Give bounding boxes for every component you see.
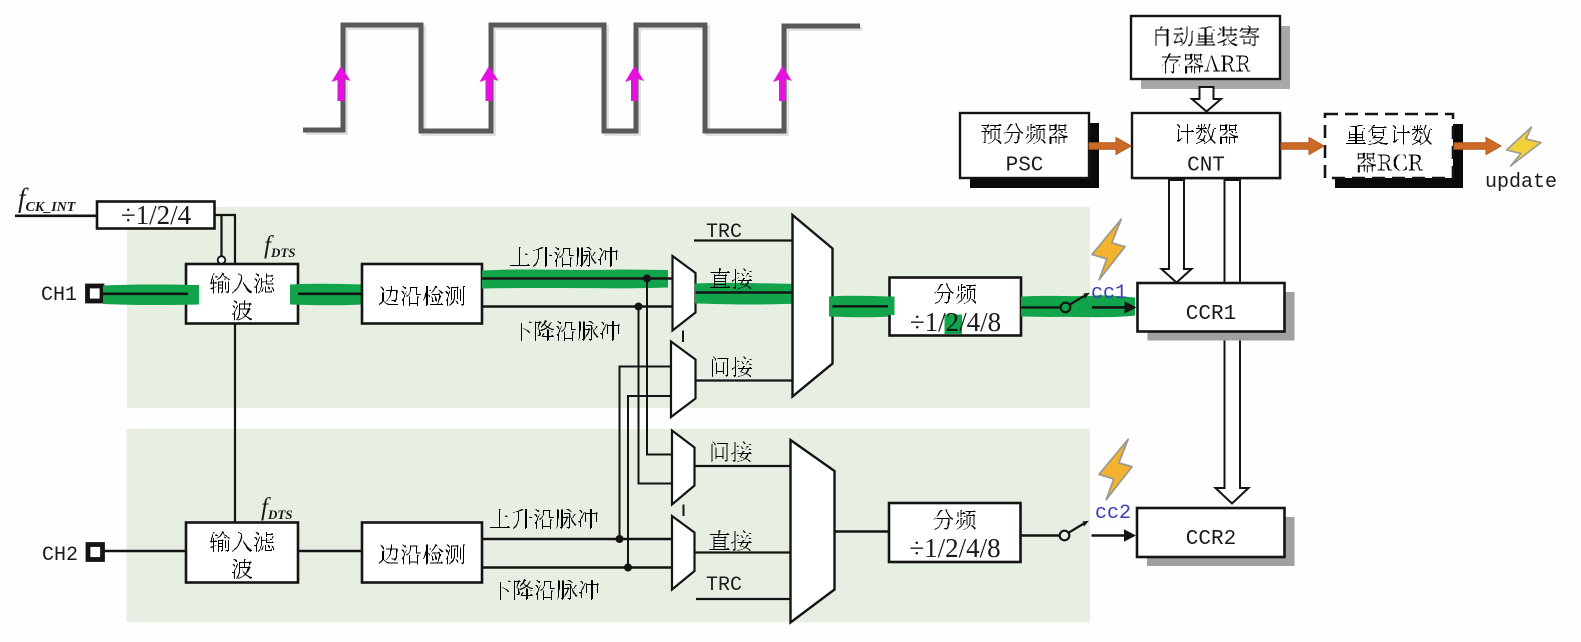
capture divider 1 box [890,278,1022,338]
input filter 2 box [186,523,298,583]
counter CNT box [1132,113,1282,180]
svg-text:CH1: CH1 [41,284,77,307]
orange arrow RCR to update event [1454,138,1501,155]
green highlight on /2 [945,315,963,335]
input filter 1 box [186,264,298,324]
svg-text:CCR1: CCR1 [1186,303,1236,326]
edge select mux CH2 direct [672,516,695,590]
green band divider1 to CCR1 [1021,295,1135,317]
auto-reload register ARR box [1131,16,1290,89]
wire divider1 to switch cc1 [1021,306,1060,308]
falling edge wire 1 [482,305,673,307]
mux connector CH1 [682,331,684,343]
rising edge arrow 2 [480,66,499,101]
capture event lightning cc1 [1092,219,1125,280]
junction dot rising 1 [643,275,651,283]
cross wire CH1 rising to CH2 indirect mux [647,279,672,455]
svg-text:CCR2: CCR2 [1186,528,1236,551]
cross wire CH2 rising to CH1 indirect mux [620,367,672,540]
junction dot falling 2 [624,564,632,572]
wire divider2 to switch cc2 [1021,534,1060,536]
edge select mux CH1 indirect [671,342,696,418]
svg-text:CNT: CNT [1187,155,1225,178]
wire divider to input filters [215,215,236,264]
cross wire CH2 falling to CH1 indirect mux [628,396,671,568]
indirect wire 2 [695,465,791,467]
hollow arrow CNT to CCR2 (passes behind CCR1) [1216,180,1249,504]
input select mux CH1 [793,215,833,397]
clock wire down to channel 2 filter [234,324,236,523]
clock divider box ÷1/2/4 [97,202,215,229]
svg-text:cc1: cc1 [1091,282,1127,305]
clock waveform [306,28,863,134]
wire filter1 to edge detect 1 [298,292,362,295]
orange arrow CNT to RCR [1281,138,1324,155]
switch contact cc1 [1061,303,1071,313]
direct label 2 [710,530,752,551]
rising edge pulse label 1 [510,247,618,267]
svg-text:÷1/2/4: ÷1/2/4 [121,200,192,230]
rising edge arrow 1 [332,66,351,101]
CH2 port square [88,545,103,560]
svg-text:÷1/2/4/8: ÷1/2/4/8 [909,533,1000,563]
rising edge pulse label 2 [490,509,598,529]
svg-text:÷1/2/4/8: ÷1/2/4/8 [910,307,1001,337]
direct wire 1 [696,291,793,293]
channel 1 background panel [127,207,1090,408]
svg-text:fCK_INT: fCK_INT [18,183,77,215]
rising edge wire 1 [482,277,673,279]
wire mux1 to divider 1 [833,305,890,307]
clock bubble on filter 1 [218,256,226,264]
green band filter1 to edge detect [290,284,362,306]
direct label 1 [710,268,752,289]
edge select mux CH1 direct [673,256,696,331]
prescaler PSC box [960,113,1099,188]
green highlight band CH1 input [103,285,199,306]
wire filter2 to edge detect 2 [298,550,362,552]
TRC wire 2 [696,598,791,600]
edge detector 2 box [362,523,482,583]
arrow into CCR1 [1092,306,1125,309]
edge detector 1 box [362,264,482,324]
svg-text:update: update [1485,171,1557,194]
rising edge wire 2 [482,538,672,540]
cross wire CH1 falling to CH2 indirect mux [639,307,673,484]
switch lever cc2 [1069,524,1083,533]
channel 2 background panel [127,429,1091,623]
rising edge arrow 4 [773,66,792,101]
falling edge wire 2 [482,566,672,568]
hollow arrow ARR to CNT [1192,87,1221,112]
hollow arrow CNT to CCR1 [1162,180,1192,283]
rising edge arrow 3 [625,66,644,101]
update event lightning bolt [1507,127,1542,166]
junction dot rising 2 [616,535,624,543]
svg-text:TRC: TRC [706,574,742,597]
switch contact cc2 [1060,531,1070,541]
capture event lightning cc2 [1099,439,1132,500]
TRC wire 1 [694,239,793,241]
mux connector CH2 [683,505,685,517]
falling edge pulse label 1 [512,320,620,341]
wire mux2 to divider 2 [835,530,890,532]
CH1 wire to input filter [102,292,188,295]
capture register CCR2 box [1137,508,1295,566]
green band direct 1 [695,283,798,305]
orange arrow PSC to CNT [1089,138,1131,155]
capture register CCR1 box [1138,283,1295,341]
green band mux1 output [829,296,891,318]
capture divider 2 box [889,503,1021,563]
repetition counter RCR box (dashed) [1325,114,1463,188]
svg-text:PSC: PSC [1006,155,1044,178]
junction dot falling 1 [635,303,643,311]
falling edge pulse label 2 [491,579,599,600]
green band jut into divider 1 [888,297,895,316]
input select mux CH2 [791,440,835,623]
svg-text:cc2: cc2 [1095,502,1131,525]
arrow into CCR2 [1092,534,1125,537]
edge select mux CH2 indirect [672,431,695,505]
switch lever cc1 [1070,296,1084,305]
f_CK_INT input wire [15,215,97,218]
CH2 wire to input filter [103,550,186,552]
indirect label 2 [712,441,752,462]
CH1 port square [88,286,103,301]
direct wire 2 [695,551,791,553]
indirect label 1 [712,356,752,377]
indirect wire 1 [696,379,793,381]
green band rising edge 1 [482,269,668,288]
svg-text:CH2: CH2 [42,544,78,567]
